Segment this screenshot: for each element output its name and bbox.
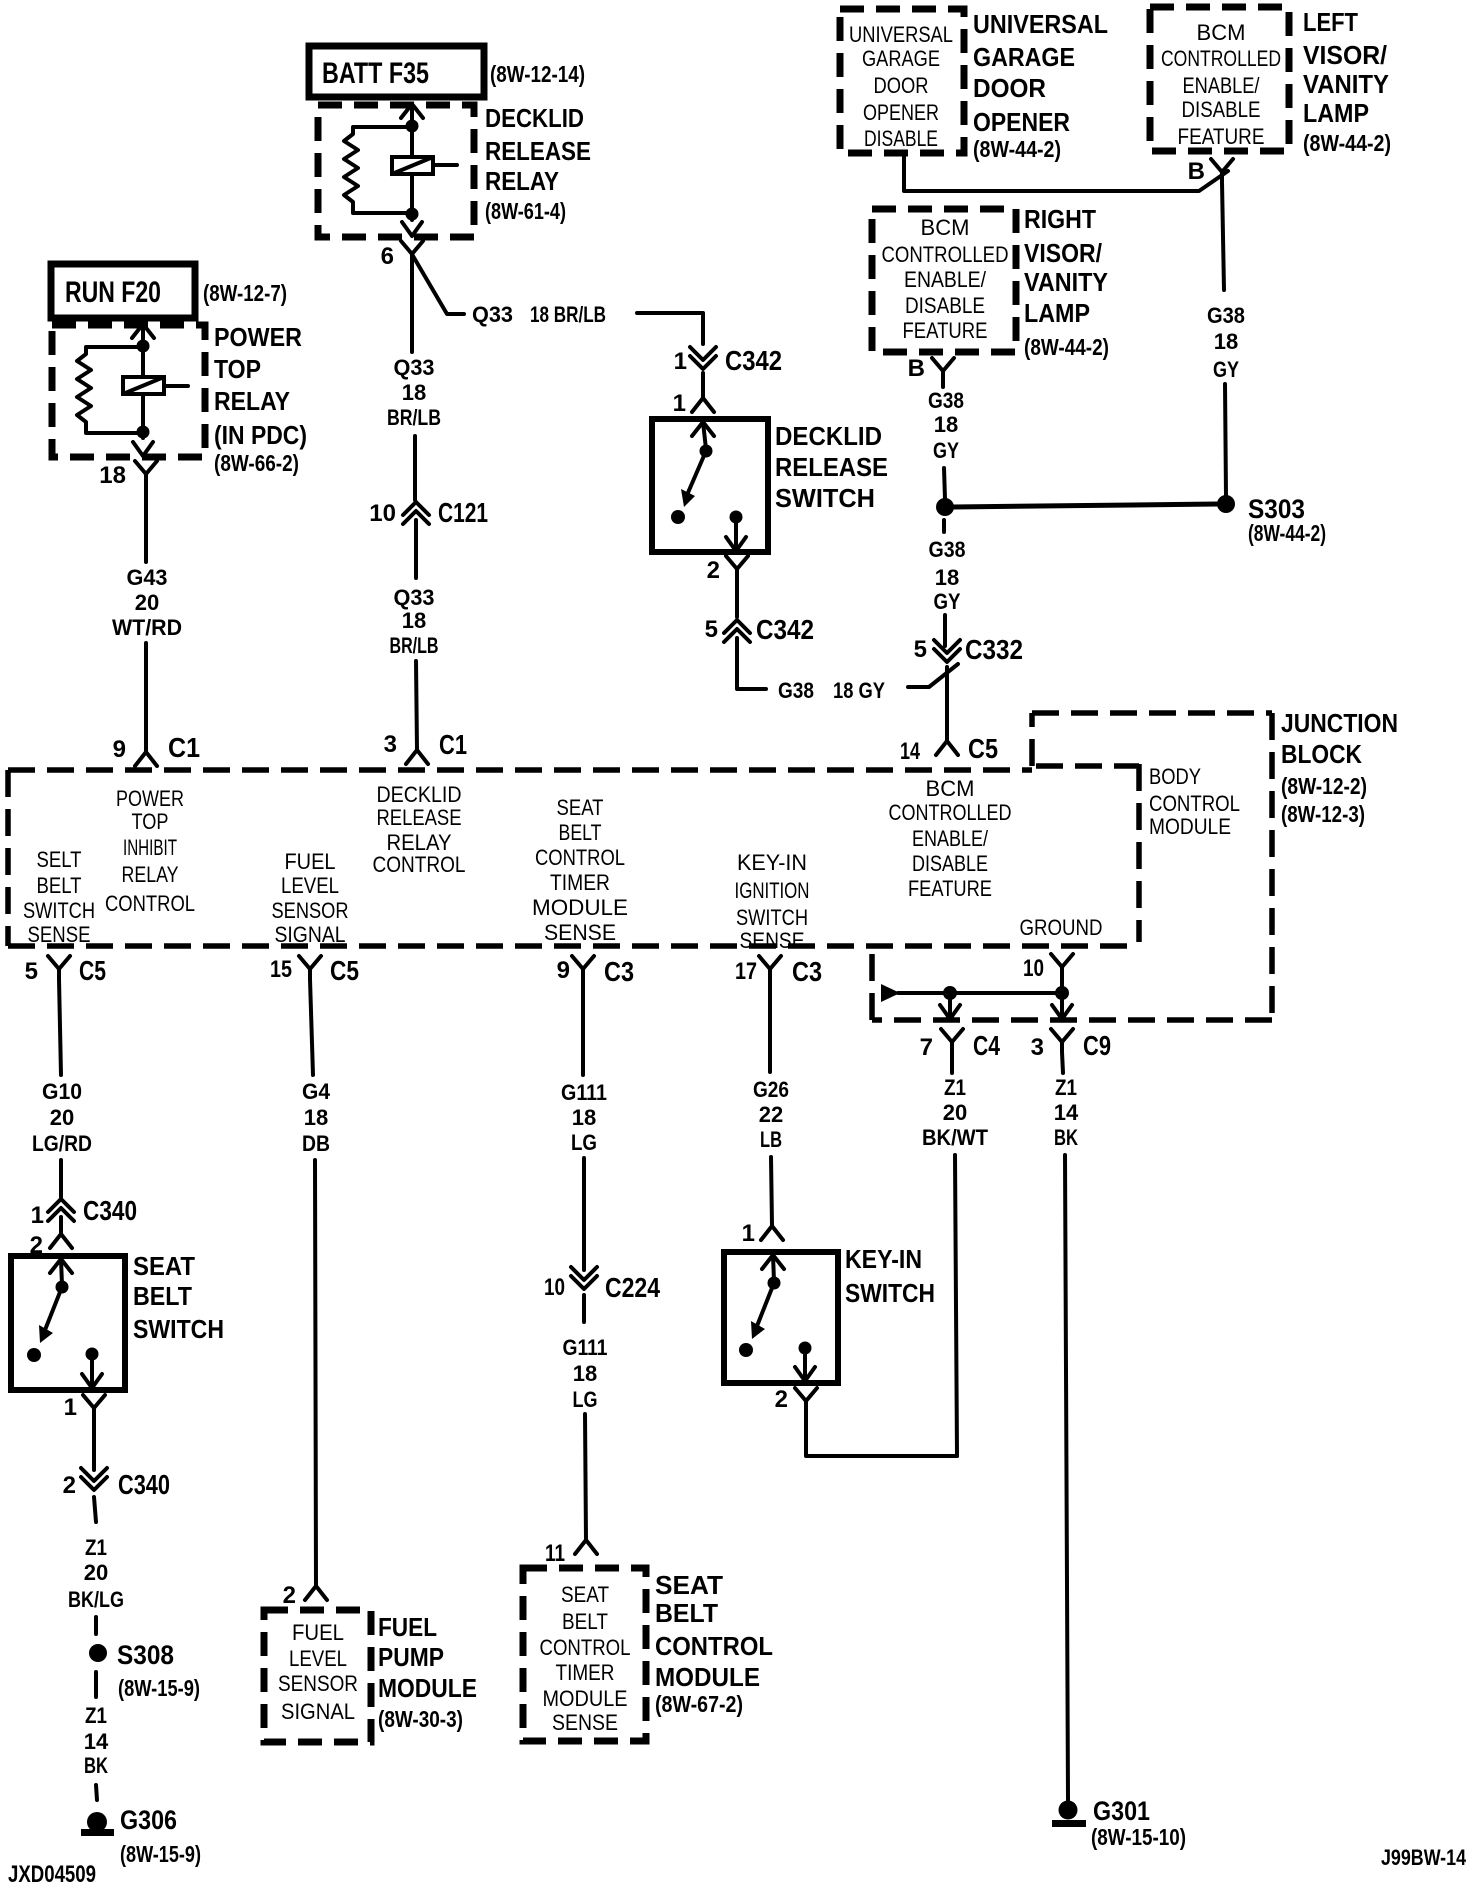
svg-text:20: 20 bbox=[943, 1100, 967, 1125]
wire label G111 18 LG bbox=[561, 1080, 607, 1155]
wire col4 from pin 17 C3 down bbox=[768, 979, 772, 1072]
wire label G38 18 GY bbox=[1207, 303, 1245, 382]
svg-text:VANITY: VANITY bbox=[1024, 267, 1108, 297]
svg-text:CONTROLLED: CONTROLLED bbox=[1161, 46, 1281, 71]
svg-text:POWER: POWER bbox=[116, 786, 184, 811]
svg-text:C3: C3 bbox=[792, 956, 822, 987]
svg-text:RIGHT: RIGHT bbox=[1024, 204, 1096, 234]
svg-text:18: 18 bbox=[573, 1361, 597, 1386]
switch movable contact bbox=[56, 1281, 69, 1294]
svg-text:C5: C5 bbox=[79, 955, 106, 986]
svg-text:GY: GY bbox=[1213, 357, 1239, 382]
svg-text:BELT: BELT bbox=[559, 820, 602, 845]
wire from UGDO disable to left visor pin B bbox=[904, 153, 1228, 191]
wire down to C9 with arrow bbox=[1060, 1000, 1064, 1019]
svg-text:SIGNAL: SIGNAL bbox=[275, 922, 346, 947]
splice S308 bbox=[89, 1644, 107, 1662]
svg-text:C340: C340 bbox=[83, 1195, 137, 1226]
svg-text:C224: C224 bbox=[605, 1272, 660, 1303]
svg-text:SENSE: SENSE bbox=[544, 920, 616, 945]
svg-text:VISOR/: VISOR/ bbox=[1024, 238, 1102, 268]
wire label G26 22 LB bbox=[753, 1077, 789, 1152]
wire contact to box edge bbox=[734, 523, 738, 551]
splice S303 left node bbox=[936, 498, 954, 516]
svg-text:Z1: Z1 bbox=[944, 1075, 966, 1100]
svg-text:POWER: POWER bbox=[214, 322, 302, 352]
svg-text:FUEL: FUEL bbox=[378, 1612, 437, 1642]
svg-text:GROUND: GROUND bbox=[1020, 915, 1103, 940]
relay module DECKLID RELEASE RELAY dashed box bbox=[318, 105, 474, 237]
wire below C332 to junction block pin 14 bbox=[945, 667, 949, 741]
svg-text:C5: C5 bbox=[330, 955, 359, 986]
svg-text:18: 18 bbox=[1214, 329, 1238, 354]
svg-text:SWITCH: SWITCH bbox=[736, 905, 808, 930]
svg-text:FUEL: FUEL bbox=[285, 849, 336, 874]
svg-text:ENABLE/: ENABLE/ bbox=[1183, 73, 1261, 98]
svg-text:G38: G38 bbox=[928, 388, 964, 413]
wire from relay pin 6 down bbox=[410, 264, 414, 352]
svg-text:10: 10 bbox=[544, 1274, 565, 1301]
svg-text:Z1: Z1 bbox=[85, 1703, 107, 1728]
junction block dashed outline bbox=[8, 713, 1272, 1020]
svg-text:RELAY: RELAY bbox=[214, 386, 290, 416]
svg-text:CONTROL: CONTROL bbox=[535, 845, 625, 870]
svg-text:LG/RD: LG/RD bbox=[32, 1131, 92, 1156]
wire label G111 18 LG bbox=[563, 1335, 608, 1412]
svg-text:Q33: Q33 bbox=[394, 355, 435, 380]
svg-text:S308: S308 bbox=[117, 1640, 174, 1670]
wire down and right to G38 label bbox=[737, 638, 766, 689]
svg-text:G301: G301 bbox=[1093, 1796, 1150, 1826]
wire to C340 bbox=[59, 1160, 63, 1197]
svg-text:SWITCH: SWITCH bbox=[133, 1314, 224, 1344]
svg-text:5: 5 bbox=[705, 616, 718, 643]
svg-text:(8W-15-10): (8W-15-10) bbox=[1091, 1824, 1186, 1850]
svg-text:1: 1 bbox=[674, 348, 687, 375]
svg-text:VANITY: VANITY bbox=[1303, 69, 1389, 99]
wire long to fuel pump module bbox=[315, 1160, 316, 1586]
svg-text:LAMP: LAMP bbox=[1024, 298, 1090, 328]
svg-text:(IN PDC): (IN PDC) bbox=[214, 420, 307, 450]
svg-text:Q33: Q33 bbox=[394, 585, 435, 610]
svg-text:SENSOR: SENSOR bbox=[272, 898, 349, 923]
svg-text:C121: C121 bbox=[438, 497, 488, 528]
wire branch diagonal to Q33 splice label bbox=[413, 256, 464, 314]
svg-text:BLOCK: BLOCK bbox=[1281, 739, 1362, 769]
wire col6 from pin 3 C9 down bbox=[1062, 1052, 1063, 1073]
svg-text:G38: G38 bbox=[1207, 303, 1245, 328]
svg-text:JUNCTION: JUNCTION bbox=[1281, 708, 1398, 738]
wire to junction block pin 9 bbox=[144, 643, 148, 752]
ground G301 bbox=[1052, 1801, 1086, 1828]
wire to movable contact bbox=[773, 1255, 774, 1281]
svg-text:5: 5 bbox=[914, 636, 927, 663]
svg-text:DOOR: DOOR bbox=[874, 73, 929, 98]
wire long to ground G301 bbox=[1065, 1155, 1068, 1800]
wire to junction block pin 3 bbox=[416, 661, 417, 750]
wire to C121 bbox=[413, 436, 417, 500]
svg-text:9: 9 bbox=[557, 957, 570, 984]
switch contact (thrown) bbox=[27, 1348, 41, 1362]
resistor (relay coil suppression) bbox=[77, 347, 143, 433]
svg-text:(8W-12-3): (8W-12-3) bbox=[1281, 801, 1365, 827]
wire contact to box edge bbox=[90, 1360, 94, 1388]
svg-text:C5: C5 bbox=[968, 733, 998, 764]
svg-text:FEATURE: FEATURE bbox=[903, 318, 988, 343]
svg-text:2: 2 bbox=[707, 557, 720, 584]
svg-text:MODULE: MODULE bbox=[543, 1686, 628, 1711]
switch contact (thrown) bbox=[739, 1343, 753, 1357]
svg-text:BK: BK bbox=[1054, 1125, 1078, 1150]
node: relay top junction bbox=[137, 340, 150, 353]
svg-text:OPENER: OPENER bbox=[863, 100, 939, 125]
svg-text:ENABLE/: ENABLE/ bbox=[904, 267, 987, 292]
svg-text:RELEASE: RELEASE bbox=[775, 452, 888, 482]
svg-text:GY: GY bbox=[934, 589, 961, 614]
svg-text:C1: C1 bbox=[439, 729, 467, 760]
wire label Q33 18 BR/LB bbox=[390, 585, 439, 658]
svg-text:(8W-67-2): (8W-67-2) bbox=[655, 1691, 743, 1717]
switch DECKLID RELEASE SWITCH box bbox=[652, 419, 768, 552]
svg-text:CONTROL: CONTROL bbox=[373, 852, 466, 877]
module FUEL LEVEL SENSOR SIGNAL dashed box bbox=[264, 1610, 371, 1742]
svg-text:SEAT: SEAT bbox=[655, 1570, 723, 1600]
pin arrow down out of relay box bbox=[133, 442, 153, 456]
svg-text:TOP: TOP bbox=[214, 354, 261, 384]
arrow into switch bbox=[762, 1255, 784, 1269]
svg-text:DECKLID: DECKLID bbox=[775, 421, 882, 451]
svg-text:C342: C342 bbox=[725, 345, 782, 376]
wire label G10 20 LG/RD bbox=[32, 1079, 92, 1156]
svg-text:BR/LB: BR/LB bbox=[390, 633, 439, 658]
wire stub bbox=[94, 1672, 98, 1697]
svg-text:SENSE: SENSE bbox=[740, 928, 805, 953]
switch arm with arrowhead bbox=[45, 1287, 62, 1330]
svg-text:G26: G26 bbox=[753, 1077, 789, 1102]
svg-text:18: 18 bbox=[934, 412, 958, 437]
svg-text:RUN F20: RUN F20 bbox=[65, 276, 161, 309]
svg-text:FEATURE: FEATURE bbox=[1178, 124, 1265, 149]
svg-text:DISABLE: DISABLE bbox=[1182, 97, 1261, 122]
pin arrow down out of relay box bbox=[402, 222, 422, 236]
label LEFT VISOR/VANITY LAMP bbox=[1303, 7, 1391, 156]
svg-text:FEATURE: FEATURE bbox=[908, 876, 992, 901]
net label POWER TOP INHIBIT RELAY CONTROL bbox=[105, 786, 195, 916]
net label SELT BELT SWITCH SENSE bbox=[23, 847, 95, 947]
svg-text:GARAGE: GARAGE bbox=[973, 42, 1075, 72]
node: relay bottom junction bbox=[137, 426, 150, 439]
wire contact to box edge bbox=[803, 1354, 807, 1381]
wire stub bbox=[96, 1785, 97, 1800]
svg-text:(8W-44-2): (8W-44-2) bbox=[1024, 334, 1109, 360]
svg-text:CONTROLLED: CONTROLLED bbox=[889, 800, 1012, 825]
label FUEL PUMP MODULE bbox=[378, 1612, 477, 1732]
svg-text:VISOR/: VISOR/ bbox=[1303, 40, 1387, 70]
label UNIVERSAL GARAGE DOOR OPENER bbox=[973, 9, 1108, 162]
svg-text:INHIBIT: INHIBIT bbox=[123, 835, 177, 860]
label BODY CONTROL MODULE bbox=[1149, 764, 1240, 839]
svg-text:G10: G10 bbox=[42, 1079, 82, 1104]
svg-text:BCM: BCM bbox=[1197, 20, 1246, 45]
switch fixed contact pin 2 bbox=[799, 1342, 812, 1355]
wire to C332 bbox=[943, 615, 947, 646]
wire G43 bbox=[144, 484, 148, 562]
svg-text:(8W-44-2): (8W-44-2) bbox=[1248, 520, 1326, 546]
wire label G38 18 GY bbox=[928, 388, 964, 463]
svg-text:FUEL: FUEL bbox=[292, 1620, 344, 1645]
switch contact (thrown) bbox=[671, 510, 685, 524]
switch arm with arrowhead bbox=[687, 451, 706, 495]
wire col3 from pin 9 C3 down bbox=[581, 979, 585, 1075]
wire down to key-in loop bbox=[955, 1155, 957, 1456]
switch KEY-IN SWITCH box bbox=[724, 1252, 838, 1383]
svg-text:BK: BK bbox=[84, 1753, 108, 1778]
svg-text:SWITCH: SWITCH bbox=[775, 483, 875, 513]
junction node bbox=[1055, 986, 1069, 1000]
svg-text:C332: C332 bbox=[965, 634, 1023, 665]
svg-text:(8W-15-9): (8W-15-9) bbox=[118, 1675, 200, 1701]
wire relay vertical bbox=[410, 104, 414, 220]
svg-text:LG: LG bbox=[573, 1387, 598, 1412]
svg-text:C4: C4 bbox=[973, 1030, 1000, 1061]
svg-text:(8W-44-2): (8W-44-2) bbox=[1303, 130, 1391, 156]
svg-text:(8W-15-9): (8W-15-9) bbox=[120, 1841, 201, 1867]
svg-text:C3: C3 bbox=[604, 956, 634, 987]
svg-text:G306: G306 bbox=[120, 1805, 177, 1835]
svg-text:18: 18 bbox=[572, 1105, 596, 1130]
wire label Z1 14 BK bbox=[84, 1703, 109, 1778]
svg-text:1: 1 bbox=[742, 1220, 755, 1247]
module UNIVERSAL GARAGE DOOR OPENER DISABLE dashed box bbox=[840, 9, 964, 153]
svg-text:14: 14 bbox=[1054, 1100, 1079, 1125]
wire col2 from pin 15 C5 down bbox=[310, 979, 313, 1075]
svg-text:(8W-12-2): (8W-12-2) bbox=[1281, 773, 1367, 799]
svg-text:CONTROL: CONTROL bbox=[1149, 791, 1240, 816]
wire to movable contact bbox=[703, 422, 706, 449]
svg-text:15: 15 bbox=[270, 956, 292, 983]
label DECKLID RELEASE RELAY bbox=[485, 103, 591, 224]
svg-text:TIMER: TIMER bbox=[556, 1660, 615, 1685]
svg-text:9: 9 bbox=[113, 736, 126, 763]
svg-text:G111: G111 bbox=[563, 1335, 608, 1360]
svg-text:14: 14 bbox=[900, 738, 920, 765]
svg-text:BCM: BCM bbox=[921, 215, 970, 240]
svg-text:ENABLE/: ENABLE/ bbox=[912, 826, 989, 851]
svg-text:5: 5 bbox=[25, 958, 38, 985]
svg-text:6: 6 bbox=[381, 243, 394, 270]
wire to splice S303 bbox=[1225, 384, 1226, 496]
svg-text:PUMP: PUMP bbox=[378, 1642, 444, 1672]
svg-text:(8W-30-3): (8W-30-3) bbox=[378, 1706, 463, 1732]
svg-text:DECKLID: DECKLID bbox=[377, 782, 462, 807]
svg-text:GY: GY bbox=[933, 438, 959, 463]
svg-text:C9: C9 bbox=[1083, 1030, 1111, 1061]
svg-text:DISABLE: DISABLE bbox=[912, 851, 988, 876]
node: relay bottom junction bbox=[406, 208, 419, 221]
wire col1 from pin 5 C5 down bbox=[59, 979, 61, 1075]
relay module POWER TOP RELAY (IN PDC) dashed box bbox=[52, 325, 205, 457]
svg-text:17: 17 bbox=[735, 958, 757, 985]
label SEAT BELT SWITCH bbox=[133, 1251, 224, 1344]
ground G306 bbox=[81, 1812, 114, 1836]
svg-text:LAMP: LAMP bbox=[1303, 98, 1369, 128]
wire to movable contact bbox=[61, 1259, 62, 1285]
svg-text:(8W-12-14): (8W-12-14) bbox=[490, 61, 585, 87]
svg-text:MODULE: MODULE bbox=[1149, 814, 1231, 839]
svg-text:RELEASE: RELEASE bbox=[485, 136, 591, 166]
label POWER TOP RELAY (IN PDC) bbox=[214, 322, 307, 476]
net label FUEL LEVEL SENSOR SIGNAL bbox=[272, 849, 349, 947]
label DECKLID RELEASE SWITCH bbox=[775, 421, 888, 513]
splice S303 node bbox=[1217, 495, 1235, 513]
pin arrow up into relay box bbox=[132, 324, 154, 338]
wire relay vertical bbox=[141, 324, 145, 438]
svg-text:22: 22 bbox=[759, 1102, 783, 1127]
label SEAT BELT CONTROL MODULE bbox=[655, 1570, 773, 1717]
wire to key-in switch bbox=[771, 1157, 772, 1226]
node: relay top junction bbox=[406, 120, 419, 133]
svg-text:7: 7 bbox=[920, 1034, 933, 1061]
svg-text:BELT: BELT bbox=[655, 1598, 718, 1628]
svg-text:SWITCH: SWITCH bbox=[845, 1278, 935, 1308]
svg-text:G111: G111 bbox=[561, 1080, 607, 1105]
wire label Z1 20 BK/WT bbox=[922, 1075, 989, 1150]
svg-text:WT/RD: WT/RD bbox=[112, 615, 182, 640]
wire label G38 18 GY bbox=[929, 537, 966, 614]
switch arm with arrowhead bbox=[757, 1283, 774, 1326]
wire from label diagonal up to C332 bbox=[908, 664, 958, 687]
pin arrow up into relay box bbox=[401, 104, 423, 118]
switch fixed contact pin 2 bbox=[730, 511, 743, 524]
wire stub below splice bbox=[942, 520, 946, 532]
fuse RUN F20 bbox=[51, 264, 195, 318]
svg-text:(8W-12-7): (8W-12-7) bbox=[203, 280, 287, 306]
svg-text:Z1: Z1 bbox=[85, 1535, 107, 1560]
svg-text:B: B bbox=[1188, 158, 1205, 185]
svg-text:C342: C342 bbox=[756, 614, 814, 645]
arrow into switch bbox=[692, 422, 714, 436]
svg-text:Z1: Z1 bbox=[1055, 1075, 1077, 1100]
svg-text:C1: C1 bbox=[168, 732, 200, 763]
svg-text:SWITCH: SWITCH bbox=[23, 898, 95, 923]
wire label G43 20 WT/RD bbox=[112, 565, 182, 640]
body control module dashed edges bbox=[1036, 763, 1139, 769]
svg-text:G43: G43 bbox=[127, 565, 168, 590]
switch movable contact bbox=[700, 445, 713, 458]
svg-text:20: 20 bbox=[84, 1560, 108, 1585]
svg-text:(8W-44-2): (8W-44-2) bbox=[973, 136, 1061, 162]
svg-text:3: 3 bbox=[1031, 1034, 1044, 1061]
svg-text:UNIVERSAL: UNIVERSAL bbox=[973, 9, 1108, 39]
wire down to C4 with arrow bbox=[948, 1000, 952, 1019]
svg-text:3: 3 bbox=[384, 731, 397, 758]
svg-text:18: 18 bbox=[304, 1105, 328, 1130]
svg-text:SEAT: SEAT bbox=[133, 1251, 195, 1281]
label KEY-IN SWITCH bbox=[845, 1244, 935, 1308]
wire from label to connector C342 bbox=[637, 313, 703, 344]
svg-text:CONTROL: CONTROL bbox=[105, 891, 195, 916]
svg-text:IGNITION: IGNITION bbox=[735, 878, 810, 903]
svg-text:CONTROLLED: CONTROLLED bbox=[882, 242, 1009, 267]
svg-text:KEY-IN: KEY-IN bbox=[845, 1244, 922, 1274]
net label KEY-IN IGNITION SWITCH SENSE bbox=[735, 850, 810, 953]
svg-text:SEAT: SEAT bbox=[561, 1582, 609, 1607]
wire stub bbox=[94, 1617, 98, 1634]
wire resumes below label bbox=[944, 468, 945, 499]
svg-text:LEFT: LEFT bbox=[1303, 7, 1358, 37]
svg-text:18: 18 bbox=[402, 608, 426, 633]
svg-text:DISABLE: DISABLE bbox=[864, 126, 938, 151]
svg-text:DECKLID: DECKLID bbox=[485, 103, 584, 133]
module SEAT BELT CONTROL TIMER MODULE SENSE dashed box bbox=[523, 1568, 646, 1741]
svg-text:BELT: BELT bbox=[562, 1609, 608, 1634]
svg-text:18: 18 bbox=[935, 565, 959, 590]
module BCM CONTROLLED ENABLE/DISABLE FEATURE (left visor) dashed box bbox=[1150, 7, 1289, 151]
svg-text:RELAY: RELAY bbox=[122, 862, 179, 887]
svg-text:10: 10 bbox=[369, 500, 396, 527]
wire col5 from pin 7 C4 down bbox=[950, 1052, 954, 1073]
svg-text:DB: DB bbox=[302, 1131, 330, 1156]
wire G38 down from left visor bbox=[1222, 182, 1224, 290]
svg-text:LEVEL: LEVEL bbox=[289, 1646, 347, 1671]
svg-text:BCM: BCM bbox=[926, 776, 975, 801]
svg-text:10: 10 bbox=[1023, 955, 1044, 982]
junction node bbox=[943, 986, 957, 1000]
svg-text:BATT F35: BATT F35 bbox=[322, 57, 429, 90]
svg-text:1: 1 bbox=[673, 390, 686, 417]
wire loop from key-in pin 2 to ground wire bbox=[806, 1411, 957, 1456]
svg-text:MODULE: MODULE bbox=[378, 1673, 477, 1703]
svg-text:1: 1 bbox=[64, 1394, 77, 1421]
wire to C340 pin 2 bbox=[92, 1418, 96, 1470]
svg-text:(8W-61-4): (8W-61-4) bbox=[485, 198, 566, 224]
module BCM CONTROLLED ENABLE/DISABLE FEATURE (right visor) dashed box bbox=[872, 209, 1016, 352]
svg-text:J99BW-14: J99BW-14 bbox=[1381, 1845, 1467, 1870]
svg-text:SENSOR: SENSOR bbox=[278, 1671, 358, 1696]
svg-text:RELAY: RELAY bbox=[485, 166, 559, 196]
svg-text:2: 2 bbox=[283, 1582, 296, 1609]
svg-text:B: B bbox=[908, 355, 925, 382]
wire to C224 bbox=[582, 1158, 586, 1270]
svg-text:SENSE: SENSE bbox=[552, 1710, 618, 1735]
svg-text:TIMER: TIMER bbox=[550, 870, 610, 895]
svg-text:20: 20 bbox=[50, 1105, 74, 1130]
net label DECKLID RELEASE RELAY CONTROL bbox=[373, 782, 466, 877]
svg-text:BK/LG: BK/LG bbox=[68, 1587, 124, 1612]
svg-text:SEAT: SEAT bbox=[557, 795, 604, 820]
relay coil bbox=[392, 157, 457, 174]
resistor (relay coil suppression) bbox=[344, 127, 412, 213]
svg-text:BK/WT: BK/WT bbox=[922, 1125, 989, 1150]
net label SEAT BELT CONTROL TIMER MODULE SENSE bbox=[532, 795, 628, 945]
relay coil bbox=[123, 377, 188, 394]
wire below C340 bbox=[94, 1497, 96, 1522]
svg-text:MODULE: MODULE bbox=[532, 895, 628, 920]
svg-text:18: 18 bbox=[99, 462, 126, 489]
svg-text:SIGNAL: SIGNAL bbox=[281, 1699, 355, 1724]
wire label Z1 14 BK bbox=[1054, 1075, 1079, 1150]
svg-text:18: 18 bbox=[402, 380, 426, 405]
arrow into switch bbox=[50, 1259, 72, 1273]
svg-text:OPENER: OPENER bbox=[973, 107, 1070, 137]
svg-text:CONTROL: CONTROL bbox=[540, 1635, 631, 1660]
svg-text:RELEASE: RELEASE bbox=[377, 805, 462, 830]
svg-text:KEY-IN: KEY-IN bbox=[737, 850, 807, 875]
svg-text:UNIVERSAL: UNIVERSAL bbox=[849, 22, 953, 47]
svg-text:C340: C340 bbox=[118, 1469, 170, 1500]
svg-text:20: 20 bbox=[135, 590, 159, 615]
wire below C224 bbox=[582, 1295, 586, 1322]
